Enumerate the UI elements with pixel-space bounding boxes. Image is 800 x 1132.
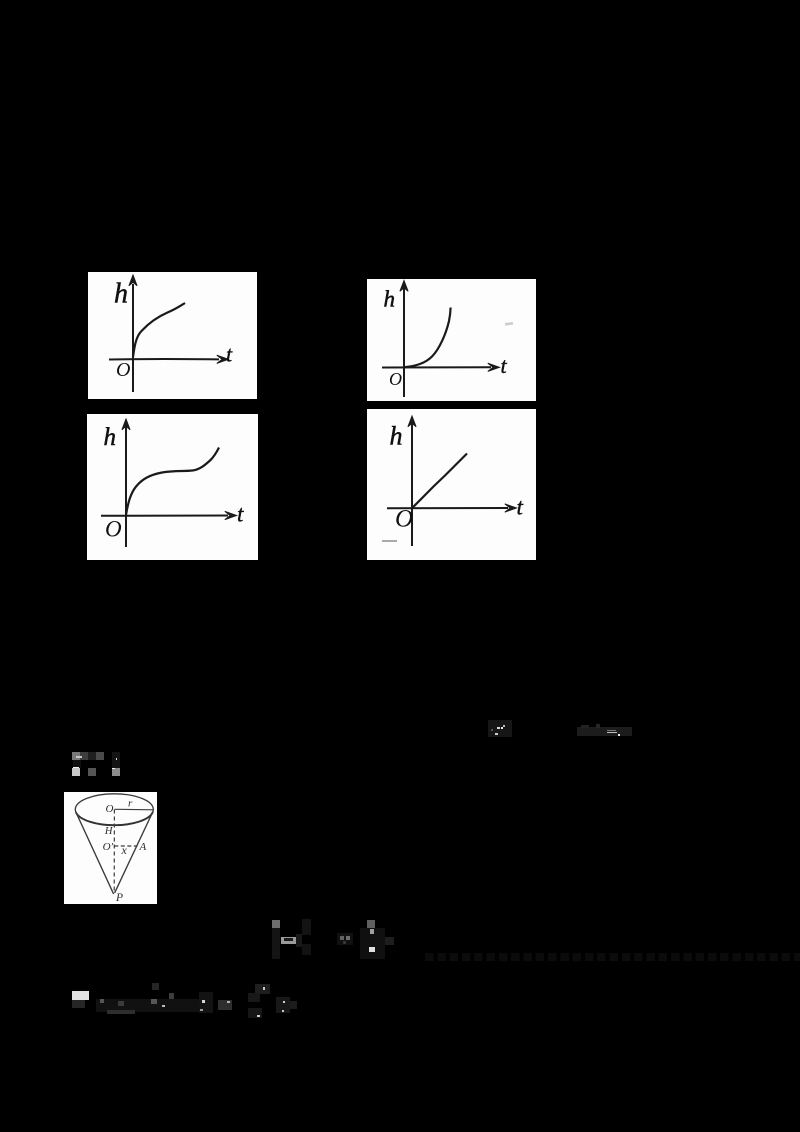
vertical h-axis with arrow — [408, 416, 416, 546]
faint dark equation text row (near y=728) — [577, 727, 632, 736]
svg-text:h: h — [390, 422, 403, 451]
svg-text:h: h — [104, 424, 117, 451]
bottom pixelated text row (near y=990..1016) — [72, 991, 89, 1000]
svg-text:O: O — [116, 359, 130, 381]
graph panel B (top-right): h vs t, exponential curve — [367, 279, 536, 401]
svg-text:t: t — [226, 342, 233, 367]
graph panel C (bottom-left): h vs t, S-shaped curve — [87, 414, 258, 560]
sqrt-like curve — [133, 303, 185, 357]
graph panel A (top-left): h vs t, square-root-like curve — [88, 272, 257, 399]
thicker lower arc of ellipse — [76, 812, 153, 825]
faint gray dash bottom-left — [382, 540, 397, 542]
left generator line — [76, 812, 114, 895]
horizontal t-axis with arrow — [387, 504, 517, 512]
vertical h-axis with arrow — [122, 419, 130, 547]
svg-text:h: h — [114, 279, 128, 310]
svg-text:x: x — [121, 843, 128, 857]
faint scan artifact dashed band — [425, 953, 800, 961]
svg-text:t: t — [517, 495, 524, 520]
svg-text:O: O — [395, 506, 413, 533]
svg-text:O: O — [389, 369, 402, 389]
svg-text:A: A — [139, 841, 147, 853]
svg-text:t: t — [501, 353, 508, 378]
svg-text:H: H — [104, 826, 114, 837]
svg-text:t: t — [237, 502, 244, 527]
cone figure panel — [64, 792, 157, 904]
horizontal t-axis with arrow — [109, 355, 229, 363]
dashed axis O to P — [113, 810, 115, 894]
svg-text:P: P — [115, 892, 123, 904]
svg-text:O: O — [105, 517, 122, 542]
svg-text:r: r — [128, 797, 133, 809]
pixelated equation cluster (near y=920..960) — [272, 920, 280, 929]
horizontal t-axis with arrow — [382, 363, 500, 371]
radius line O to rim — [115, 808, 154, 811]
cone top ellipse — [75, 794, 153, 825]
right generator line — [115, 811, 154, 893]
svg-text:O: O — [106, 803, 114, 815]
straight line through origin — [412, 454, 467, 509]
svg-text:h: h — [384, 287, 396, 312]
faint gray smudge — [505, 322, 513, 326]
vertical h-axis with arrow — [129, 275, 137, 392]
graph panel D (bottom-right): h vs t, straight line — [367, 409, 536, 560]
exponential curve — [404, 308, 451, 368]
mosaic block cluster (near x=72..120, y=752) — [72, 752, 80, 760]
vertical h-axis with arrow — [400, 281, 408, 398]
dashed segment O' to A — [114, 845, 137, 847]
svg-text:O′: O′ — [103, 841, 114, 853]
horizontal t-axis with arrow — [101, 511, 237, 519]
S-shaped curve — [126, 448, 219, 516]
faint smudge blob left (near y=720) — [488, 720, 512, 737]
